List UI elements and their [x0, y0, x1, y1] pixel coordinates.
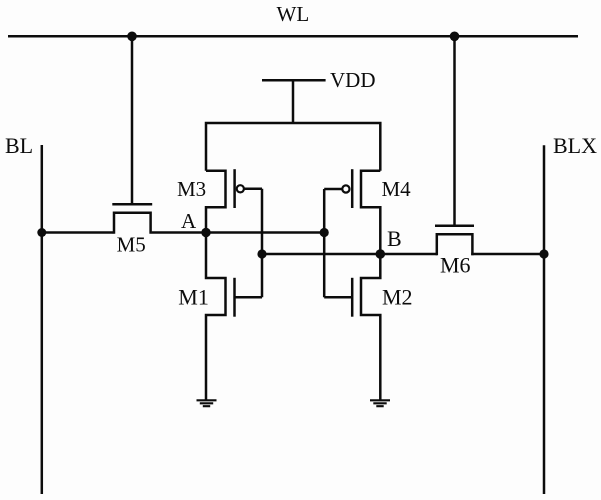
wire cross-couple left vertical x=262: [261, 189, 264, 297]
node junction dot M4 gate on A wire: [320, 228, 329, 237]
svg-text:BLX: BLX: [553, 133, 597, 158]
svg-text:M4: M4: [382, 177, 412, 201]
wire VDD rail to M3 and M4 sources: [206, 123, 380, 171]
transistor M6 channel: [437, 234, 473, 255]
wire M4 gate to node A: [324, 188, 342, 191]
transistor M4 body source-channel-drain: [361, 171, 380, 254]
svg-text:B: B: [387, 226, 402, 251]
wire BL line: [41, 145, 44, 494]
wire WL rail: [8, 35, 578, 38]
wire M1 gate to node B vertical: [235, 296, 263, 299]
transistor M5 channel: [114, 213, 151, 234]
svg-text:VDD: VDD: [330, 68, 376, 92]
svg-text:M3: M3: [177, 177, 206, 201]
wire cross-couple right vertical x=324: [323, 189, 326, 297]
wire BLX line: [543, 145, 546, 494]
transistor M4 gate bubble: [342, 185, 349, 192]
transistor M4 gate bar: [351, 169, 354, 208]
node A junction dot: [201, 228, 210, 237]
transistor M2 gate bar: [351, 278, 354, 317]
node B junction dot: [376, 249, 386, 259]
transistor M6 gate bar: [435, 224, 474, 227]
wire node A horizontal left segment: [42, 231, 114, 234]
transistor M3 body source-channel-drain: [206, 171, 226, 233]
svg-text:WL: WL: [277, 2, 310, 26]
ground left under M1: [197, 400, 217, 406]
transistor M2 body drain-channel-source: [361, 254, 380, 400]
wire VDD stem: [292, 80, 295, 123]
svg-text:M2: M2: [382, 285, 413, 310]
node junction dot WL-M6: [450, 32, 460, 42]
svg-text:BL: BL: [5, 133, 33, 158]
node junction dot BLX: [539, 249, 548, 258]
wire M6 gate from WL: [453, 36, 456, 225]
transistor M5 gate bar: [112, 203, 152, 206]
wire M3 gate to node B: [244, 188, 262, 191]
transistor M1 gate bar: [233, 278, 236, 317]
transistor M3 gate bubble: [237, 185, 244, 192]
ground right under M2: [370, 400, 390, 406]
svg-text:M5: M5: [117, 233, 146, 257]
svg-text:M1: M1: [178, 285, 209, 310]
svg-text:A: A: [181, 209, 197, 233]
transistor M1 body drain-channel-source: [206, 233, 226, 401]
node junction dot WL-M5: [127, 32, 137, 42]
wire node B horizontal right segment: [471, 253, 544, 256]
wire M2 gate to node A vertical: [324, 296, 352, 299]
wire node A horizontal right segment: [152, 231, 325, 234]
svg-text:M6: M6: [440, 252, 471, 277]
node junction dot M3 gate on B wire: [257, 249, 266, 258]
node junction dot BL: [37, 228, 46, 237]
wire M5 gate from WL: [131, 36, 134, 204]
wire node B horizontal left segment: [262, 253, 437, 256]
power VDD bar: [262, 79, 326, 82]
transistor M3 gate bar: [233, 169, 236, 208]
